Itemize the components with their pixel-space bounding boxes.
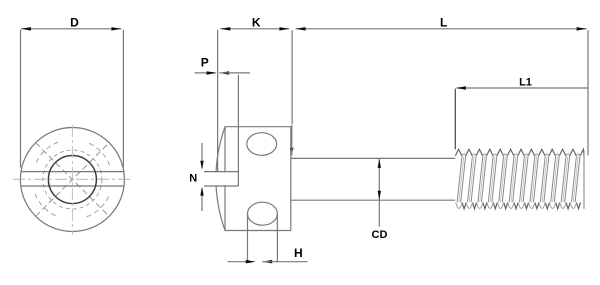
svg-text:CD: CD bbox=[372, 229, 388, 241]
svg-text:K: K bbox=[252, 16, 261, 30]
svg-text:D: D bbox=[70, 16, 79, 30]
svg-text:L: L bbox=[440, 16, 447, 30]
svg-text:H: H bbox=[294, 246, 303, 260]
svg-text:P: P bbox=[201, 56, 209, 70]
svg-text:L1: L1 bbox=[519, 77, 532, 89]
svg-text:N: N bbox=[189, 173, 197, 185]
